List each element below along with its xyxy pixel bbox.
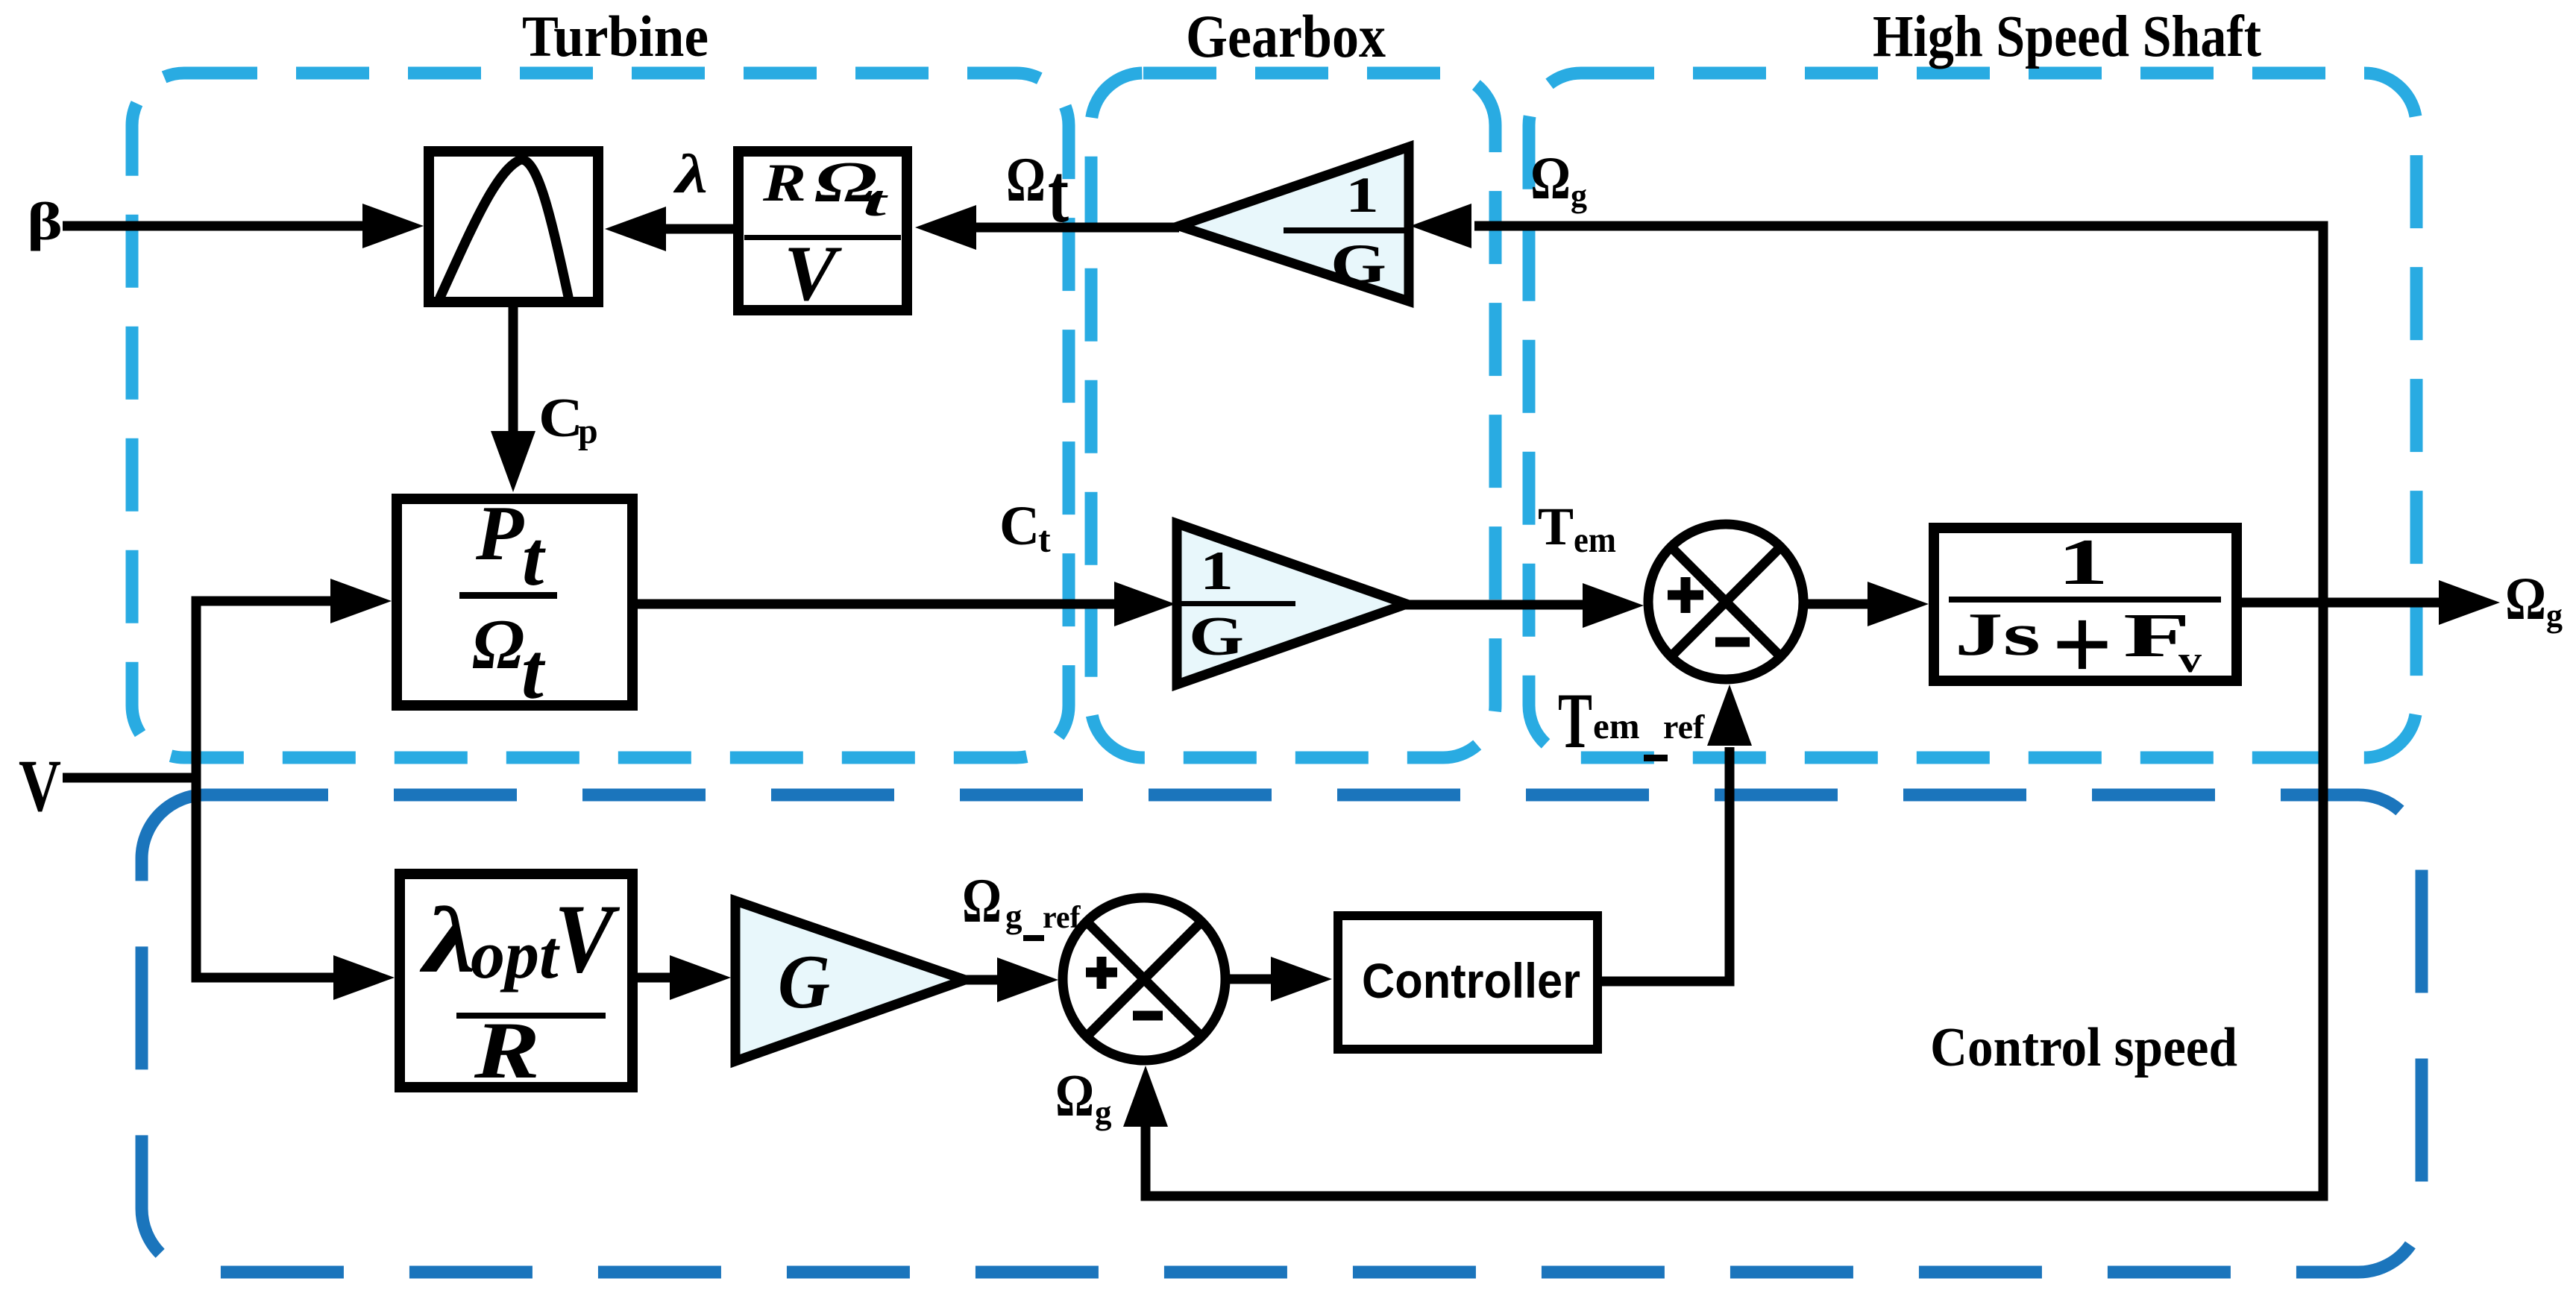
- svg-text:t: t: [1048, 148, 1069, 240]
- wire Omega_g top feedback: [1146, 226, 2323, 1196]
- svg-text:v: v: [2178, 638, 2202, 680]
- svg-text:g: g: [1005, 898, 1022, 935]
- svg-text:g: g: [1095, 1094, 1112, 1131]
- wire lambda block to G: [638, 973, 671, 983]
- svg-text:1: 1: [1345, 166, 1379, 223]
- block lambda_opt V / R: [400, 874, 632, 1087]
- region box High Speed Shaft: [1529, 73, 2416, 758]
- svg-text:V: V: [784, 230, 842, 317]
- wire lambda: [663, 224, 733, 234]
- svg-text:V: V: [554, 884, 620, 993]
- wire Cp: [509, 303, 518, 435]
- sum junction S1: [1648, 524, 1803, 679]
- svg-text:Control speed: Control speed: [1930, 1017, 2237, 1078]
- wire G to S2: [965, 975, 1000, 985]
- svg-text:P: P: [475, 489, 524, 576]
- wire Tem: [1405, 600, 1587, 610]
- svg-text:R: R: [762, 153, 806, 213]
- svg-text:G: G: [778, 940, 830, 1025]
- svg-text:G: G: [1189, 606, 1244, 667]
- gain 1/G turbine-side: [1179, 147, 1409, 301]
- svg-text:p: p: [578, 412, 598, 451]
- svg-text:High Speed Shaft: High Speed Shaft: [1873, 4, 2261, 69]
- region box Control speed: [142, 795, 2422, 1272]
- wire beta: [63, 221, 365, 231]
- svg-text:C: C: [538, 388, 583, 449]
- svg-text:t: t: [522, 515, 546, 602]
- svg-text:Gearbox: Gearbox: [1186, 2, 1386, 70]
- wire V: [63, 773, 196, 783]
- svg-text:g: g: [1571, 177, 1587, 214]
- svg-text:Ω: Ω: [1055, 1063, 1094, 1129]
- wire S1 to Js block: [1803, 600, 1872, 609]
- svg-text:C: C: [999, 495, 1040, 557]
- svg-text:λ: λ: [419, 889, 476, 993]
- svg-text:+: +: [2052, 587, 2113, 702]
- svg-text:Js: Js: [1955, 600, 2041, 668]
- gain 1/G torque-side: [1177, 523, 1407, 685]
- block R*Omega_t/V: [738, 151, 907, 310]
- wire S2 to Controller: [1227, 975, 1274, 984]
- svg-text:Ω: Ω: [1530, 144, 1571, 212]
- wire Tem_ref: [1600, 747, 1730, 981]
- svg-text:V: V: [19, 744, 61, 827]
- wire Omega_g output: [2242, 598, 2442, 608]
- block Controller: [1338, 916, 1598, 1049]
- svg-text:G: G: [1331, 233, 1386, 295]
- svg-text:ref: ref: [1663, 708, 1705, 746]
- wire V trunk: [196, 601, 336, 978]
- region box Gearbox: [1091, 73, 1495, 758]
- svg-text:R: R: [474, 1005, 540, 1095]
- wire Ct: [638, 600, 1117, 609]
- wire Omega_t: [973, 223, 1179, 233]
- svg-text:T: T: [1538, 497, 1574, 556]
- svg-text:β: β: [27, 192, 63, 251]
- svg-text:T: T: [1558, 677, 1592, 764]
- svg-text:Turbine: Turbine: [522, 4, 709, 69]
- svg-text:1: 1: [1200, 541, 1234, 602]
- svg-text:g: g: [2546, 597, 2563, 634]
- svg-text:Ω: Ω: [2505, 564, 2546, 632]
- gain G: [735, 901, 965, 1061]
- svg-text:Controller: Controller: [1362, 953, 1580, 1008]
- block Pt/Omega_t: [397, 499, 632, 705]
- svg-text:t: t: [1038, 518, 1051, 560]
- svg-text:em: em: [1593, 705, 1640, 746]
- svg-text:Ω: Ω: [1006, 145, 1046, 215]
- svg-text:λ: λ: [673, 144, 708, 205]
- svg-text:em: em: [1574, 519, 1616, 560]
- block 1/(Js+Fv): [1934, 528, 2237, 681]
- svg-text:Ω: Ω: [472, 605, 524, 684]
- region box Turbine: [132, 73, 1069, 758]
- svg-text:opt: opt: [471, 916, 560, 993]
- block Cp curve: [429, 151, 598, 302]
- svg-text:t: t: [863, 177, 889, 225]
- svg-text:Ω: Ω: [962, 866, 1002, 936]
- sum junction S2: [1063, 898, 1225, 1060]
- svg-text:t: t: [521, 628, 546, 716]
